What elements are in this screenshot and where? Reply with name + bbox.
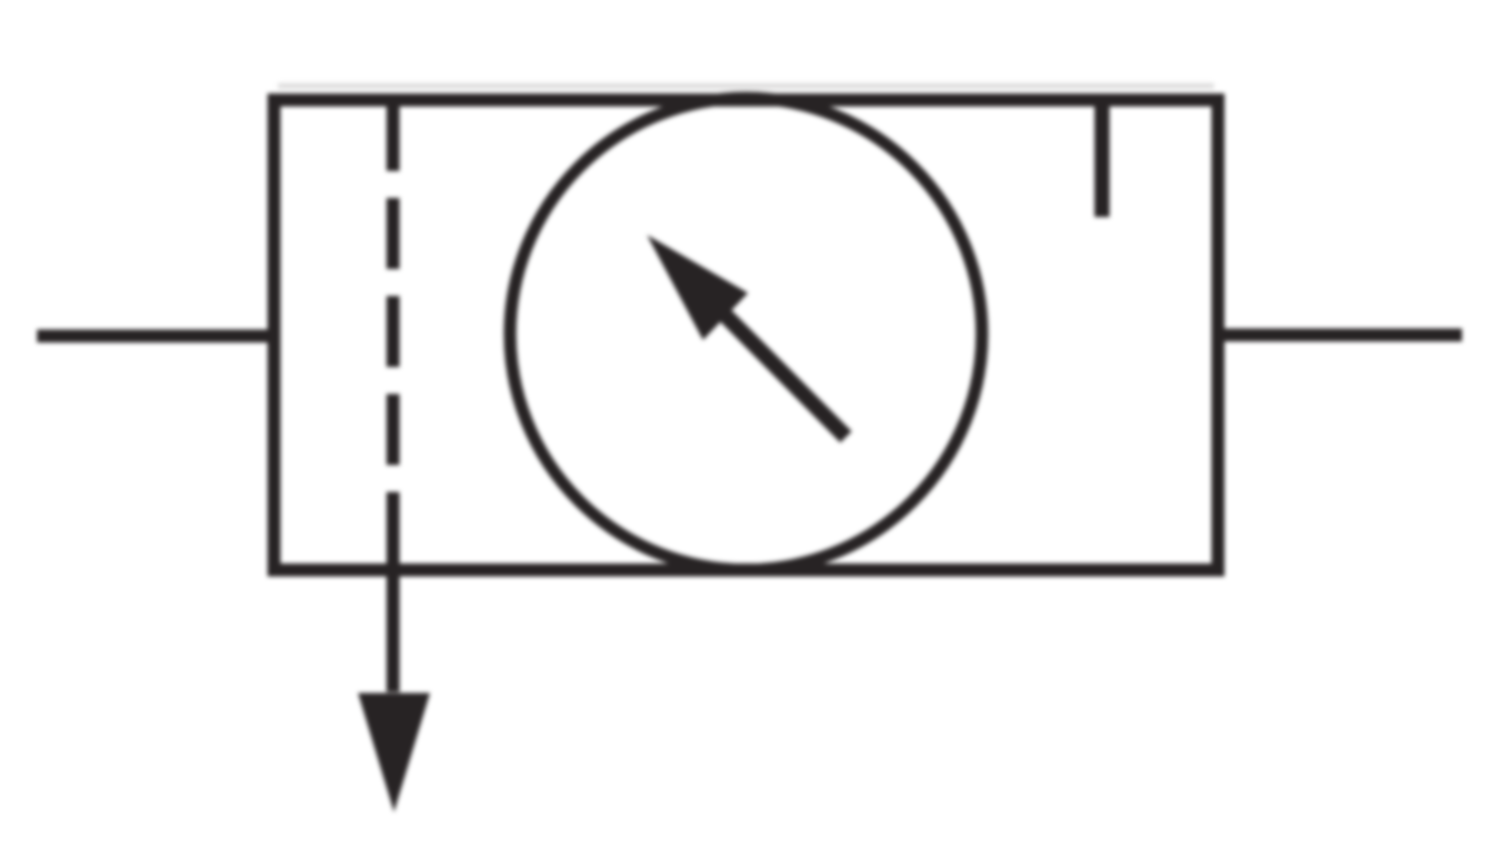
drain arrowhead	[358, 693, 430, 812]
gauge circle	[510, 98, 982, 570]
wire: outlet port lead (right)	[1218, 329, 1462, 342]
wire: inlet port lead (left)	[37, 330, 274, 343]
gauge needle shaft	[722, 312, 846, 437]
enclosure box (service unit frame)	[274, 100, 1218, 570]
top edge ghost line	[278, 83, 1214, 89]
wire: drain line (solid)	[387, 492, 400, 692]
dashed separator line	[387, 100, 400, 465]
gauge needle arrowhead	[647, 235, 748, 340]
vent tick (top right stub)	[1095, 100, 1110, 217]
